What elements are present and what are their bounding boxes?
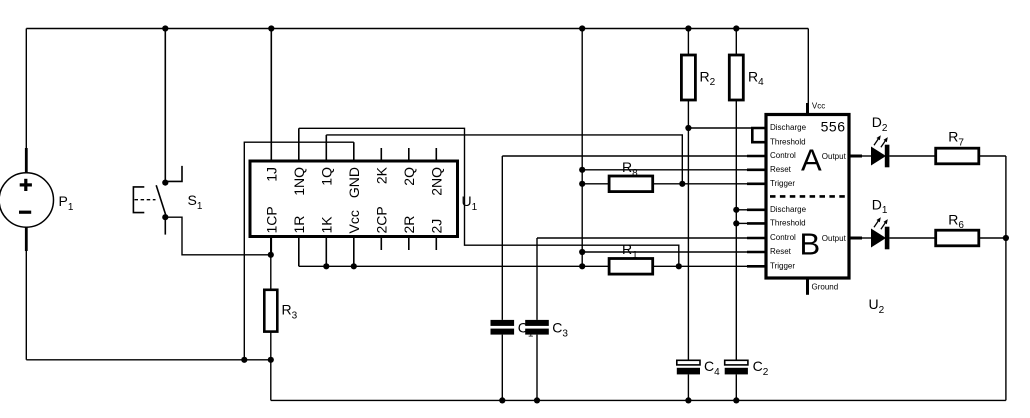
label Ground <box>812 283 839 292</box>
label Vcc <box>812 102 825 111</box>
wire C3 to ground <box>536 335 538 401</box>
label D1 <box>872 196 888 216</box>
U1 top pin labels <box>263 166 444 198</box>
switch S1 <box>133 166 182 235</box>
wire Control B row <box>537 237 747 239</box>
resistor R1 <box>609 259 653 275</box>
wire Discharge B row <box>736 209 747 211</box>
svg-text:Vcc: Vcc <box>346 210 362 233</box>
556 Output A stub <box>849 155 862 158</box>
capacitor C3 <box>525 320 549 335</box>
wire 1J to top rail <box>270 29 272 162</box>
svg-text:Control: Control <box>770 233 796 242</box>
resistor R7 <box>936 148 979 164</box>
wire Control A row <box>502 155 747 157</box>
node R3 ground junction <box>268 357 274 363</box>
node R1 right / Trigger B junction <box>676 263 682 269</box>
svg-text:Discharge: Discharge <box>770 123 807 132</box>
svg-text:Control: Control <box>770 151 796 160</box>
svg-text:2R: 2R <box>401 216 417 234</box>
wire D1 to R6 <box>889 237 935 239</box>
label R1 <box>622 241 638 261</box>
556 Output B stub <box>849 237 862 240</box>
label R6 <box>948 211 964 231</box>
svg-text:Reset: Reset <box>770 247 792 256</box>
node Reset B junction <box>579 249 585 255</box>
svg-text:A: A <box>801 142 822 177</box>
node R4/Discharge B junction <box>733 207 739 213</box>
label U1 <box>462 193 478 213</box>
resistor R6 <box>936 230 979 246</box>
svg-text:1K: 1K <box>318 216 334 234</box>
svg-text:1NQ: 1NQ <box>291 167 307 196</box>
resistor R3 <box>264 290 277 332</box>
svg-text:B: B <box>800 227 821 262</box>
wire C1 column upper <box>501 156 503 320</box>
wire R6 to right rail <box>979 237 1006 239</box>
wire top supply rail <box>26 28 808 30</box>
wire 1Q to Trigger A net <box>326 135 682 184</box>
svg-text:2Q: 2Q <box>401 167 417 186</box>
wire Reset B row <box>582 251 747 253</box>
IC U1 body <box>250 161 458 237</box>
svg-text:Discharge: Discharge <box>770 205 807 214</box>
label S1 <box>188 192 203 212</box>
svg-text:1CP: 1CP <box>263 206 279 233</box>
wire R2 column <box>687 29 689 361</box>
node 1K junction <box>323 263 329 269</box>
node Vcc pin junction <box>351 263 357 269</box>
LED D2 <box>862 135 889 167</box>
label P1 <box>59 193 74 213</box>
label C1 <box>518 320 534 340</box>
svg-text:2NQ: 2NQ <box>428 167 444 196</box>
svg-text:1R: 1R <box>291 216 307 234</box>
node Reset A junction <box>579 167 585 173</box>
timer IC U2 body <box>766 115 849 279</box>
556 left pin stubs <box>747 156 766 266</box>
label C3 <box>552 320 568 340</box>
wire right return rail <box>1005 156 1007 400</box>
svg-text:2CP: 2CP <box>373 206 389 233</box>
resistor R2 <box>681 55 695 100</box>
node R1 left junction <box>579 263 585 269</box>
node C3 ground junction <box>534 397 540 403</box>
label C2 <box>753 358 769 378</box>
capacitor C4 <box>677 360 700 374</box>
label section A <box>801 142 822 177</box>
node R8 right / Trigger A junction <box>679 181 685 187</box>
wire U1 supply row <box>299 265 747 267</box>
wire bottom ground rail <box>271 399 1006 401</box>
svg-text:Ground: Ground <box>812 283 839 292</box>
voltage source P1 <box>0 148 54 251</box>
svg-text:556: 556 <box>821 119 846 135</box>
svg-text:Output: Output <box>822 234 847 243</box>
node 1CP/S1 junction <box>268 252 274 258</box>
556 Ground pin stub <box>806 278 809 295</box>
wire Reset A row <box>582 169 747 171</box>
556 Vcc pin stub <box>806 103 809 115</box>
wire 1NQ to Trigger B net <box>299 128 679 266</box>
svg-text:1J: 1J <box>263 167 279 182</box>
node R8 left junction <box>579 181 585 187</box>
wire Vcc distribution vertical <box>581 29 583 267</box>
node C2 ground junction <box>733 397 739 403</box>
wire R3 to ground rail <box>270 332 272 360</box>
node R4/Threshold B junction <box>733 220 739 226</box>
label U2 <box>869 296 885 316</box>
svg-text:Output: Output <box>822 152 847 161</box>
node R6 right junction <box>1003 235 1009 241</box>
wire R8 row <box>582 183 747 185</box>
label D2 <box>872 114 888 134</box>
resistor R4 <box>729 55 743 100</box>
556 pin labels <box>770 123 807 270</box>
label Output B <box>822 234 847 243</box>
wire GND to ground rail <box>244 142 353 360</box>
svg-text:Trigger: Trigger <box>770 179 795 188</box>
LED D1 <box>862 217 889 249</box>
label R8 <box>622 159 638 179</box>
node R2/Discharge A junction <box>685 125 691 131</box>
svg-text:2J: 2J <box>428 219 444 234</box>
resistor R8 <box>609 176 653 192</box>
wire R7 to right rail <box>979 155 1006 157</box>
capacitor C1 <box>491 320 515 335</box>
node Vcc rail junction <box>579 25 585 31</box>
label 556 <box>821 119 846 135</box>
label Output A <box>822 152 847 161</box>
wire Threshold B row <box>736 222 747 224</box>
U1 bottom pin stubs <box>271 237 436 267</box>
U1 bottom pin labels <box>263 206 444 233</box>
svg-text:1Q: 1Q <box>318 167 334 186</box>
wire Discharge A row <box>688 127 752 129</box>
label R4 <box>748 68 764 88</box>
wire C1 to ground <box>501 335 503 401</box>
label R7 <box>948 129 964 149</box>
wire left rail (P1 branch) <box>25 29 27 360</box>
wire D2 to R7 <box>889 155 935 157</box>
556 Discharge-Threshold A bracket <box>752 128 766 142</box>
wire C3 column upper <box>536 238 538 320</box>
node R2 rail junction <box>685 25 691 31</box>
svg-text:Trigger: Trigger <box>770 262 795 271</box>
wire S1 top feed <box>164 29 166 183</box>
svg-text:GND: GND <box>346 167 362 198</box>
wire bottom-left rail <box>26 359 270 361</box>
node R4 rail junction <box>733 25 739 31</box>
wire S1 to 1CP node <box>165 217 270 255</box>
wire 556 Vcc drop <box>807 29 809 106</box>
node S1 top rail junction <box>162 25 168 31</box>
wire ground rail drop <box>270 360 272 401</box>
556 section divider <box>770 195 846 198</box>
node C4 ground junction <box>685 397 691 403</box>
label section B <box>800 227 821 262</box>
node C1 ground junction <box>499 397 505 403</box>
wire 1CP node to R3 <box>270 255 272 290</box>
svg-text:Reset: Reset <box>770 165 792 174</box>
label R3 <box>282 302 298 322</box>
wire C2 to ground <box>735 374 737 400</box>
label R2 <box>700 68 716 88</box>
node GND ground junction <box>241 357 247 363</box>
wire 1CP column <box>270 237 272 255</box>
capacitor C2 <box>725 360 748 374</box>
wire C4 to ground <box>687 374 689 400</box>
U1 top pin stubs <box>299 128 437 161</box>
node 1J rail junction <box>268 25 274 31</box>
label C4 <box>704 358 720 378</box>
svg-text:2K: 2K <box>373 166 389 184</box>
svg-text:Vcc: Vcc <box>812 102 825 111</box>
wire R4 column <box>735 29 737 361</box>
